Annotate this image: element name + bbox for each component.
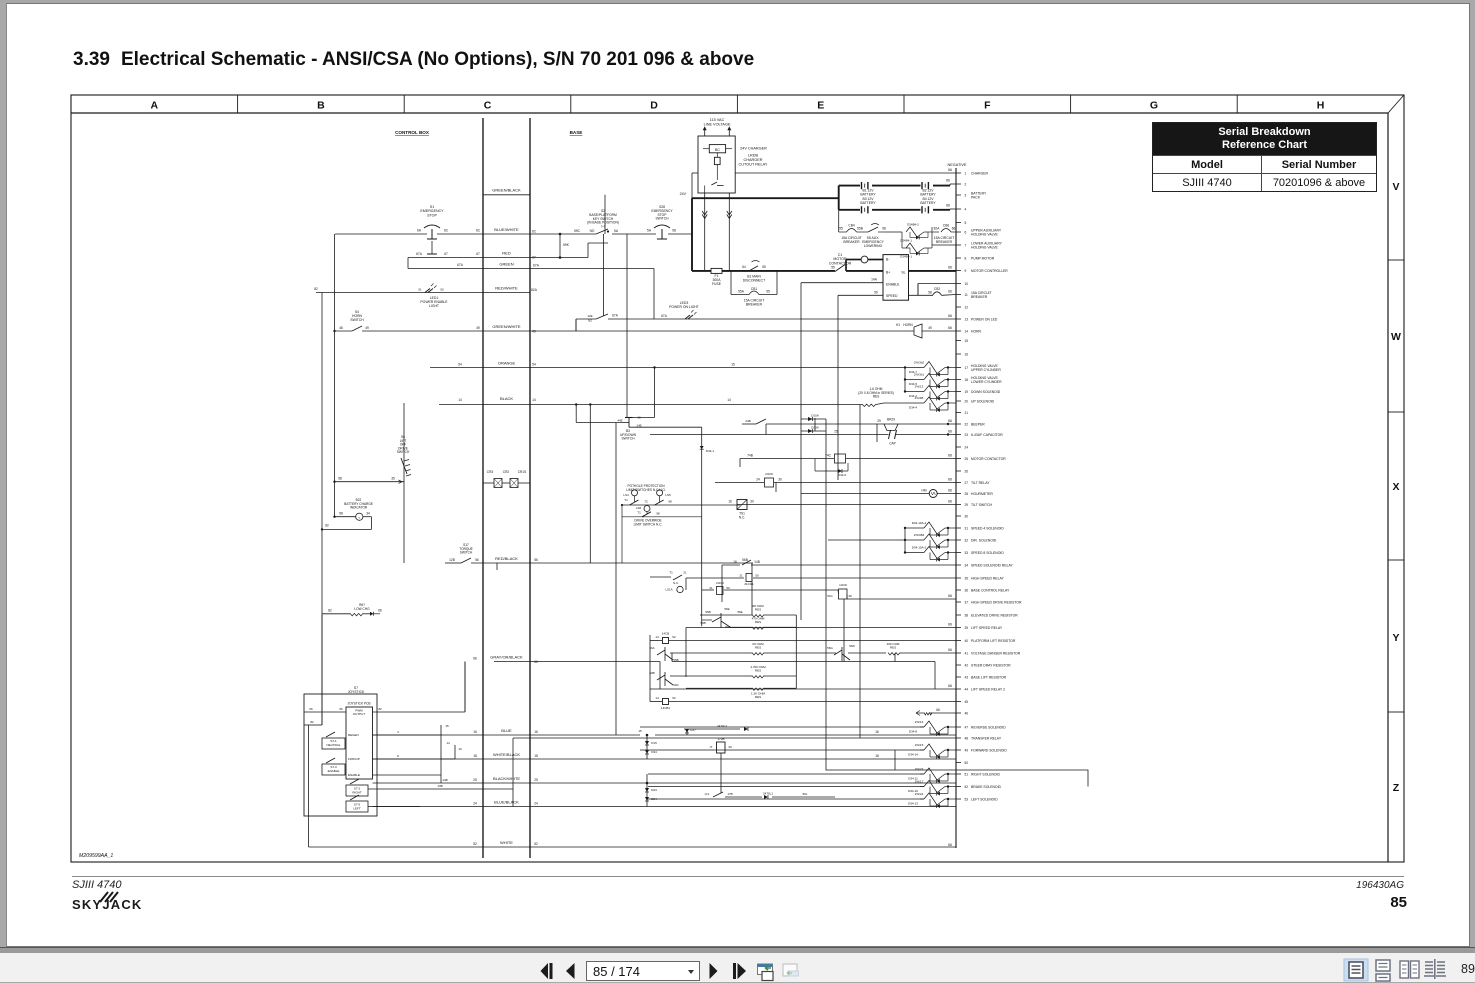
svg-text:36: 36: [965, 588, 969, 592]
svg-text:6C: 6C: [476, 229, 481, 233]
switch S28 emergency stop switch: [654, 225, 670, 228]
svg-text:67A: 67A: [533, 264, 540, 268]
svg-text:82A: 82A: [531, 288, 538, 292]
svg-text:56F: 56F: [725, 625, 730, 629]
svg-text:26: 26: [965, 469, 969, 473]
svg-text:66: 66: [948, 430, 952, 434]
charger lead left drop: [704, 193, 706, 271]
svg-text:SWITCH: SWITCH: [460, 551, 473, 555]
skyjack logo: [72, 897, 143, 912]
svg-text:14: 14: [446, 741, 450, 745]
svg-text:WHITE: WHITE: [500, 840, 513, 845]
wire GREEN/WHITE horn net: [335, 330, 353, 332]
svg-text:55B: 55B: [857, 227, 863, 231]
document title: [73, 49, 754, 71]
s7-2 wire: [368, 788, 513, 790]
svg-text:10: 10: [965, 282, 969, 286]
svg-text:SWITCH: SWITCH: [397, 450, 410, 454]
red/black stub: [496, 563, 498, 570]
svg-text:21: 21: [739, 574, 743, 578]
svg-text:DIR. SOLENOID: DIR. SOLENOID: [971, 538, 997, 542]
svg-text:JOYSTICK: JOYSTICK: [348, 690, 365, 694]
vertical wire rails: [575, 319, 577, 331]
left bus rail upper thin: [691, 173, 693, 198]
svg-text:66: 66: [948, 326, 952, 330]
terminal strip pins 1-53 with net labels: [956, 172, 961, 174]
svg-text:Z: Z: [1393, 782, 1400, 794]
wire 44 lift speed relay 2: [650, 688, 956, 690]
svg-text:CHARGER: CHARGER: [971, 171, 989, 175]
wire 41 voltage danger net: [670, 652, 752, 654]
zone row divider: [1388, 711, 1404, 713]
svg-text:66: 66: [948, 843, 952, 847]
svg-text:H1: H1: [896, 323, 900, 327]
svg-text:32: 32: [965, 538, 969, 542]
svg-text:PUMP MOTOR: PUMP MOTOR: [971, 256, 995, 260]
svg-text:16: 16: [728, 500, 732, 504]
svg-text:60C: 60C: [673, 683, 679, 687]
svg-text:X: X: [1392, 481, 1399, 493]
svg-text:BREAKER: BREAKER: [746, 303, 763, 307]
enable wire 14A: [801, 282, 883, 284]
wire 47 reverse solenoid: [640, 726, 924, 728]
svg-text:LEFT: LEFT: [353, 807, 361, 811]
svg-text:59C: 59C: [574, 229, 581, 233]
svg-text:GREEN: GREEN: [499, 262, 513, 267]
corner path lower: [826, 738, 1088, 787]
svg-text:LOWERING: LOWERING: [864, 244, 883, 248]
wire BLACK: [439, 404, 862, 406]
svg-text:POWER ON LIGHT: POWER ON LIGHT: [669, 305, 699, 309]
svg-text:GREEN/WHITE: GREEN/WHITE: [492, 324, 521, 329]
transistor Q 60B: [657, 672, 673, 686]
svg-text:66: 66: [948, 419, 952, 423]
svg-text:2%/16: 2%/16: [915, 720, 924, 724]
svg-text:82: 82: [310, 720, 314, 724]
svg-text:SWITCH: SWITCH: [621, 437, 635, 441]
svg-text:14: 14: [458, 398, 462, 402]
wire to CB6: [932, 231, 939, 233]
svg-text:18: 18: [534, 754, 538, 758]
zone header band separator: [71, 112, 1388, 114]
limit switch LS4: [632, 490, 638, 496]
svg-text:6-43UF CAPACITOR: 6-43UF CAPACITOR: [971, 433, 1003, 437]
svg-text:RES: RES: [890, 646, 896, 650]
left rail 82: [321, 293, 323, 726]
svg-text:43: 43: [965, 675, 969, 679]
battery charger BC box: [709, 145, 725, 153]
svg-text:DISCONNECT: DISCONNECT: [743, 279, 765, 283]
svg-text:VOLTAGE DANGER RESISTOR: VOLTAGE DANGER RESISTOR: [971, 651, 1021, 655]
svg-text:49: 49: [476, 326, 480, 330]
svg-text:66: 66: [948, 489, 952, 493]
svg-text:82: 82: [378, 707, 382, 711]
zone column divider: [1070, 95, 1072, 113]
svg-text:SWITCH: SWITCH: [350, 318, 364, 322]
svg-text:D34-4: D34-4: [909, 405, 918, 409]
svg-text:12: 12: [965, 305, 969, 309]
wire 22 beeper net: [766, 423, 884, 425]
svg-text:HOLDING VALVE: HOLDING VALVE: [971, 246, 999, 250]
svg-text:35: 35: [391, 477, 395, 481]
pdf viewer toolbar: [0, 947, 1475, 982]
wire 38 resistor 470 ohm: [730, 626, 752, 628]
zone column divider: [903, 95, 905, 113]
svg-text:44: 44: [965, 687, 969, 691]
control box boundary line right: [529, 118, 531, 858]
svg-text:F: F: [984, 100, 991, 112]
svg-text:ORANGE: ORANGE: [498, 361, 516, 366]
svg-text:LIFT SPEED RELAY 2: LIFT SPEED RELAY 2: [971, 687, 1005, 691]
left rail from blue/white: [334, 234, 336, 517]
svg-text:66: 66: [948, 684, 952, 688]
svg-text:RES: RES: [873, 395, 880, 399]
relay coil D34-6 box: [835, 454, 846, 463]
svg-text:21: 21: [965, 411, 969, 415]
s6 row wire 58: [335, 481, 405, 483]
svg-text:98: 98: [882, 227, 886, 231]
svg-text:28: 28: [965, 492, 969, 496]
svg-text:D34-13: D34-13: [908, 801, 918, 805]
aux diode network frame: [884, 231, 902, 233]
switch S5 aux emergency lowering: [868, 227, 878, 232]
svg-text:17B: 17B: [727, 792, 732, 796]
svg-text:66: 66: [948, 266, 952, 270]
svg-text:CB2: CB2: [934, 287, 940, 291]
enable wire: [373, 774, 442, 776]
svg-text:C: C: [484, 100, 492, 112]
svg-text:18: 18: [875, 754, 879, 758]
svg-text:D15: D15: [651, 741, 657, 745]
svg-text:INDICATOR: INDICATOR: [350, 506, 368, 510]
svg-text:JOYSTICK PCB: JOYSTICK PCB: [347, 702, 370, 706]
wire pin 7 from network: [932, 244, 956, 246]
svg-text:GREEN/BLACK: GREEN/BLACK: [492, 188, 521, 193]
svg-text:OUTPUT: OUTPUT: [353, 712, 366, 716]
svg-text:58: 58: [928, 290, 932, 294]
svg-text:30: 30: [728, 745, 732, 749]
svg-text:30: 30: [778, 478, 782, 482]
svg-text:FORWARD SOLENOID: FORWARD SOLENOID: [971, 748, 1007, 752]
battery B2 12V: [921, 182, 923, 189]
key switch lower contact: [596, 314, 608, 319]
terminal strip bus line: [955, 168, 957, 848]
svg-text:39: 39: [965, 626, 969, 630]
svg-text:CB4: CB4: [848, 224, 854, 228]
wire 39 lift speed relay: [686, 627, 956, 629]
svg-text:67: 67: [476, 252, 480, 256]
svg-text:CR2: CR2: [503, 470, 510, 474]
svg-text:52: 52: [965, 785, 969, 789]
svg-text:6: 6: [965, 230, 967, 234]
svg-text:29: 29: [877, 419, 881, 423]
wire 43 resistor 1.2k: [686, 687, 752, 689]
footer doc number: [1356, 880, 1404, 891]
footer rule: [72, 876, 1404, 877]
wire 45 fuse 14CB1: [650, 701, 662, 703]
svg-text:WHITE/BLACK: WHITE/BLACK: [493, 752, 520, 757]
svg-text:N.C.: N.C.: [673, 581, 679, 585]
battery pack bottom bus: [839, 209, 860, 211]
svg-text:44E: 44E: [617, 419, 622, 423]
left rail drop joins: [321, 615, 323, 725]
svg-text:HORN: HORN: [903, 323, 913, 327]
svg-text:98: 98: [672, 229, 676, 233]
pin19 resistor diode pair: [905, 391, 924, 393]
wire 49 forward solenoid: [640, 749, 924, 751]
switch on beeper row: [756, 419, 766, 424]
aux network right joins: [931, 227, 933, 248]
svg-text:30: 30: [750, 500, 754, 504]
svg-text:14B: 14B: [442, 778, 447, 782]
svg-text:BREAKER: BREAKER: [843, 240, 860, 244]
svg-text:56x: 56x: [803, 792, 808, 796]
svg-text:15: 15: [731, 363, 735, 367]
svg-text:RIGHT SOLENOID: RIGHT SOLENOID: [971, 772, 1001, 776]
svg-text:56: 56: [475, 558, 479, 562]
svg-text:51: 51: [418, 288, 422, 292]
svg-text:LINE VOLTAGE: LINE VOLTAGE: [704, 123, 731, 127]
svg-text:72: 72: [644, 500, 648, 504]
svg-text:66: 66: [473, 657, 477, 661]
svg-text:REGEN: REGEN: [348, 733, 359, 737]
svg-text:14B: 14B: [754, 560, 760, 564]
svg-text:46: 46: [965, 711, 969, 715]
pin33 resistor diode pair: [905, 552, 924, 554]
joystick pcb box: [346, 707, 373, 779]
aux network resistor diode lower: [906, 243, 924, 253]
svg-text:22: 22: [965, 422, 969, 426]
left bus rail thick: [691, 198, 693, 271]
svg-text:D23: D23: [651, 788, 657, 792]
svg-text:55: 55: [766, 290, 770, 294]
zone column divider: [1236, 95, 1238, 113]
zone column divider: [570, 95, 572, 113]
svg-text:5: 5: [965, 221, 967, 225]
svg-text:BASE LIFT RESISTOR: BASE LIFT RESISTOR: [971, 675, 1007, 679]
svg-text:115 VAC: 115 VAC: [710, 118, 725, 122]
svg-text:SPEED SOLENOID RELAY: SPEED SOLENOID RELAY: [971, 563, 1014, 567]
svg-text:2%/4B4: 2%/4B4: [914, 533, 925, 537]
switch B3 up/down toggle: [625, 417, 633, 419]
svg-text:HIGH SPEED RELAY: HIGH SPEED RELAY: [971, 576, 1004, 580]
orange feed riser: [654, 368, 656, 418]
svg-text:13B: 13B: [437, 784, 442, 788]
svg-text:31: 31: [965, 526, 969, 530]
wire 52 brake solenoid: [648, 786, 924, 788]
svg-text:74B: 74B: [747, 454, 753, 458]
svg-text:41: 41: [965, 651, 969, 655]
svg-text:T1: T1: [624, 498, 628, 502]
svg-text:CR1S: CR1S: [518, 470, 527, 474]
zone column divider: [403, 95, 405, 113]
svg-text:D: D: [650, 100, 658, 112]
wire 40 fuse 14CB: [650, 640, 662, 642]
svg-text:NEGATIVE: NEGATIVE: [948, 163, 967, 167]
svg-text:56B: 56B: [700, 621, 705, 625]
zone band right separator: [1387, 113, 1389, 862]
svg-text:172B: 172B: [717, 737, 724, 741]
key switch lower pole drop: [603, 234, 605, 316]
transistor Q 56A: [657, 647, 673, 661]
svg-text:ENABLE: ENABLE: [348, 773, 360, 777]
svg-text:19: 19: [965, 390, 969, 394]
joystick outer box: [304, 694, 377, 816]
svg-text:56B: 56B: [742, 558, 748, 562]
diode stack D23 D24: [646, 782, 649, 785]
svg-text:FUSE: FUSE: [712, 282, 722, 286]
horn H1: [910, 324, 922, 338]
svg-text:16: 16: [965, 352, 969, 356]
AC line leads with arrows: [704, 128, 706, 136]
svg-text:RED/BLACK: RED/BLACK: [495, 556, 518, 561]
wire 23 capacitor net: [650, 434, 889, 436]
svg-text:2%/3b1: 2%/3b1: [914, 372, 925, 376]
svg-text:D34-6: D34-6: [838, 473, 847, 477]
svg-text:LEFT SOLENOID: LEFT SOLENOID: [971, 797, 998, 801]
wire WHITE/BLACK: [373, 758, 957, 760]
svg-text:14: 14: [655, 635, 659, 639]
svg-text:66: 66: [946, 179, 950, 183]
lower contact jog to horn row: [576, 318, 596, 320]
zone column divider: [237, 95, 239, 113]
svg-text:47: 47: [965, 725, 969, 729]
svg-text:9: 9: [965, 269, 967, 273]
svg-text:T1: T1: [637, 511, 641, 515]
svg-text:D34-1: D34-1: [706, 449, 715, 453]
svg-text:W: W: [1391, 331, 1401, 343]
switch S1 emergency stop: [424, 225, 440, 228]
svg-text:15: 15: [445, 724, 449, 728]
zone column divider: [736, 95, 738, 113]
svg-text:D34B4-1: D34B4-1: [900, 255, 912, 259]
wire 46 arrow resistor: [930, 712, 956, 714]
svg-text:24CR: 24CR: [716, 581, 725, 585]
svg-text:56: 56: [534, 558, 538, 562]
svg-text:13: 13: [965, 317, 969, 321]
wire 37 resistor 68 ohm: [700, 614, 752, 616]
svg-text:14CB: 14CB: [662, 632, 670, 636]
switch S7-2 right: [346, 785, 368, 796]
zone row divider: [1388, 259, 1404, 261]
wire GREEN/BLACK: [483, 194, 530, 196]
wire BLUE/WHITE: [335, 233, 427, 235]
svg-text:LS4: LS4: [623, 493, 629, 497]
svg-text:27: 27: [965, 481, 969, 485]
regen wire: [373, 734, 442, 736]
battery pack top bus: [839, 185, 860, 187]
svg-text:2%/3b2: 2%/3b2: [914, 360, 925, 364]
svg-text:BLACK/WHITE: BLACK/WHITE: [493, 776, 520, 781]
pothole lower wire: [622, 516, 702, 518]
svg-text:3: 3: [965, 193, 967, 197]
svg-text:SWITCH: SWITCH: [655, 217, 669, 221]
svg-text:LOWER CYLINDER: LOWER CYLINDER: [971, 380, 1002, 384]
svg-text:ENABLE: ENABLE: [886, 283, 900, 287]
svg-text:49: 49: [532, 330, 536, 334]
svg-text:66: 66: [948, 500, 952, 504]
battery pack left edge: [838, 186, 840, 210]
svg-text:RES: RES: [755, 620, 761, 624]
svg-text:PACK: PACK: [971, 196, 981, 200]
hourmeter HM circle: [929, 490, 937, 498]
relay branch 49-52: [894, 750, 896, 770]
svg-text:34: 34: [965, 563, 969, 567]
svg-text:M209599AA_1: M209599AA_1: [79, 853, 113, 859]
svg-text:21CR1: 21CR1: [744, 582, 754, 586]
LED1 power enable light: [425, 289, 433, 293]
wire 13 power on led: [608, 318, 956, 320]
svg-text:T1: T1: [669, 571, 673, 575]
svg-text:5A: 5A: [647, 229, 652, 233]
svg-text:HOLDING VALVE: HOLDING VALVE: [971, 233, 999, 237]
svg-text:30: 30: [848, 594, 852, 598]
svg-text:14A: 14A: [871, 278, 878, 282]
svg-text:55: 55: [839, 227, 843, 231]
svg-text:25: 25: [834, 430, 838, 434]
svg-text:66: 66: [948, 648, 952, 652]
svg-text:LOW CHG: LOW CHG: [354, 607, 370, 611]
svg-text:LS1A: LS1A: [665, 588, 672, 592]
black drop rail: [589, 405, 591, 564]
motor contactor C1 contact: [835, 265, 845, 272]
wire ORANGE: [430, 367, 905, 369]
wire 48 transfer relay: [513, 737, 956, 739]
svg-text:67A: 67A: [661, 314, 668, 318]
svg-text:49: 49: [928, 326, 932, 330]
svg-text:25: 25: [473, 778, 477, 782]
svg-text:D34-10A-2: D34-10A-2: [912, 545, 927, 549]
svg-text:64: 64: [742, 265, 746, 269]
svg-text:58: 58: [339, 512, 343, 516]
battery B3 12V: [861, 206, 863, 213]
charger lead right drop: [728, 193, 730, 271]
svg-text:49: 49: [965, 748, 969, 752]
green riser to LED row: [653, 269, 655, 320]
svg-text:D17: D17: [690, 728, 696, 732]
pin 10 jog wire: [918, 283, 956, 285]
svg-text:66: 66: [339, 707, 343, 711]
svg-text:82: 82: [328, 609, 332, 613]
wire to CB4: [839, 231, 843, 233]
pin20 resistor diode pair: [884, 402, 924, 404]
svg-text:(T: (T: [710, 745, 713, 749]
svg-text:52: 52: [534, 842, 538, 846]
svg-text:BATTERY: BATTERY: [860, 201, 876, 205]
relay coil 14CR: [839, 589, 848, 599]
charger cutout relay contact: [711, 182, 717, 185]
svg-text:CR3: CR3: [487, 470, 494, 474]
svg-text:8: 8: [397, 754, 399, 758]
wire RED/BLACK: [445, 562, 461, 564]
wire 42 resistor 4700 ohm: [670, 675, 752, 677]
transistor Q 56E: [712, 613, 730, 628]
svg-text:D34-14: D34-14: [908, 752, 918, 756]
svg-text:24: 24: [965, 445, 969, 449]
svg-text:CAP: CAP: [889, 442, 896, 446]
aux network resistor diode upper: [906, 227, 924, 237]
svg-text:TILT SWITCH: TILT SWITCH: [971, 503, 993, 507]
svg-text:B+: B+: [886, 271, 890, 275]
svg-text:66: 66: [948, 623, 952, 627]
svg-text:NO: NO: [590, 229, 595, 233]
svg-text:49: 49: [365, 326, 369, 330]
svg-text:56G: 56G: [827, 646, 833, 650]
red-green left link: [407, 258, 409, 269]
wire 27 tilt relay net: [715, 482, 764, 484]
svg-text:15: 15: [965, 339, 969, 343]
svg-text:34: 34: [366, 512, 370, 516]
